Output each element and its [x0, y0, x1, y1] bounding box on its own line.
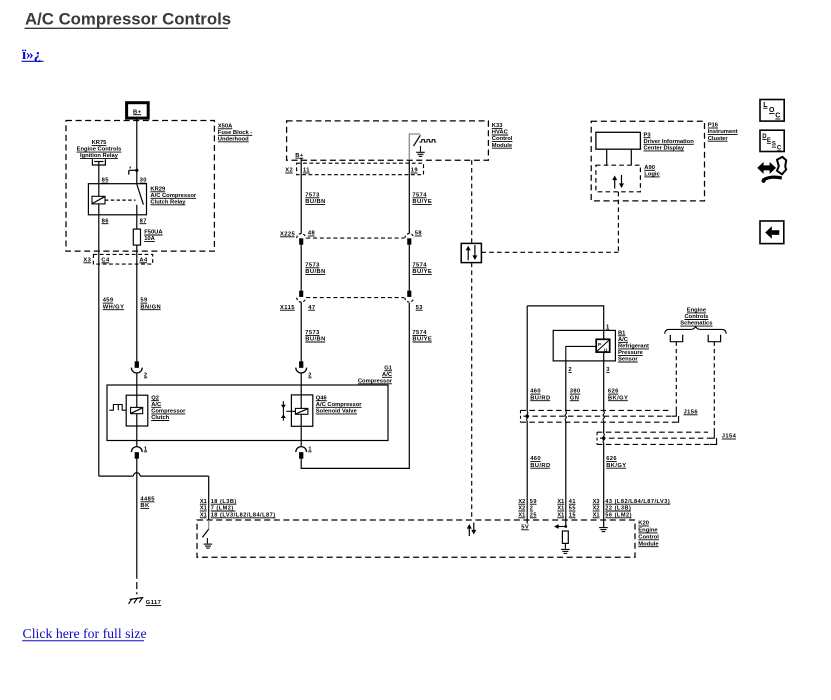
ECM serial arrows — [468, 528, 470, 536]
relay KR29 box — [88, 184, 146, 215]
svg-text:P: P — [598, 342, 601, 347]
ECM pull resistor — [562, 531, 568, 543]
serial data connector box (mid) — [461, 243, 481, 262]
wires display to logic — [606, 149, 608, 165]
relay KR75 terminal symbol — [92, 159, 105, 165]
P3 Driver Information Center Display box — [596, 132, 641, 149]
wire 5V reference loop — [527, 306, 604, 331]
clutch ground wire down — [136, 459, 138, 572]
solenoid valve symbol — [282, 401, 284, 421]
wire 380 GN down — [565, 361, 567, 412]
K33 internal PWM source symbol — [419, 140, 436, 142]
ECM internal switch to ground (A/C relay control) — [208, 520, 210, 529]
svg-text:A/C Compressor Controls: A/C Compressor Controls — [25, 9, 231, 28]
solenoid Q46 outer box — [291, 395, 312, 426]
A/C compressor G1 box — [107, 385, 388, 441]
relay KR29 coil-contact dashed link — [105, 199, 136, 201]
clutch mechanical symbol — [109, 405, 126, 411]
connector pin 1 of clutch — [131, 447, 142, 452]
wire through clutch Q2 — [136, 373, 138, 446]
wire fuse to A4 — [136, 245, 138, 361]
icon DESC box — [760, 130, 784, 151]
dashed lead to J156 — [675, 342, 677, 409]
solenoid Q46 coil — [295, 408, 308, 414]
K33 HVAC Control Module dashed outline — [287, 121, 489, 160]
chassis ground G117 — [130, 598, 144, 600]
wire through solenoid Q46 — [300, 373, 302, 446]
sensor internal signal line — [566, 346, 596, 361]
engine harness connector 1 — [670, 335, 682, 342]
clutch Q2 coil — [131, 407, 143, 413]
splice band J154 — [597, 431, 708, 433]
P16 Instrument Cluster dashed outline — [591, 121, 704, 201]
X50A Fuse Block - Underhood dashed outline — [66, 121, 214, 252]
svg-text:O: O — [769, 107, 775, 114]
solenoid return wire to X115 pin 53 — [301, 303, 409, 468]
ECM signal input arrow — [556, 526, 566, 528]
icon curved routing arrow — [758, 163, 775, 173]
wire 459 horizontal run to ECM — [99, 475, 134, 477]
svg-text:Click here for full size: Click here for full size — [23, 626, 147, 641]
junction stub on B+ wire — [129, 169, 137, 171]
power feed B+ box — [127, 103, 149, 118]
clutch Q2 outer box — [126, 395, 148, 426]
splice band J156 — [521, 409, 671, 411]
relay KR29 contact blade — [137, 184, 144, 204]
wire 460 BU/RD down — [526, 306, 528, 412]
connector pin 1 of solenoid valve — [296, 447, 307, 452]
B1 sensor box — [553, 330, 615, 361]
wire B+ to relay pin 30 — [136, 118, 138, 184]
brace — [665, 327, 727, 334]
serial data line to instrument cluster — [481, 251, 618, 253]
connector pin 2 of solenoid valve — [299, 361, 303, 367]
A90 serial arrows — [614, 180, 616, 189]
engine harness connector 2 — [708, 335, 720, 342]
A90 Logic dashed box — [596, 165, 641, 192]
icon back-arrow box — [760, 221, 784, 244]
wire B+ to pin 11 — [300, 158, 302, 234]
serial data line from K33 — [471, 160, 473, 243]
wire 626 BK/GY down — [603, 361, 605, 412]
wire coil pin 86 down — [98, 204, 100, 476]
K33 internal driver: pin 19 lead — [409, 134, 420, 160]
connector pin 2 of A/C compressor clutch — [135, 361, 139, 367]
wire KR75 to coil pin 85 — [98, 162, 100, 197]
relay KR29 coil — [92, 196, 105, 204]
pressure transducer P/U symbol — [603, 330, 605, 339]
icon LOC box — [760, 100, 784, 122]
svg-text:C: C — [775, 113, 780, 120]
K20 Engine Control Module dashed outline — [197, 520, 635, 557]
K33 internal switch blade — [414, 135, 421, 146]
dashed lead to J154 — [713, 342, 715, 431]
serial data line to ECM — [471, 263, 473, 520]
K33 internal ground — [420, 146, 422, 152]
fuse F50UA — [133, 229, 140, 245]
wire pin 87 to fuse — [136, 215, 138, 229]
ECM low reference ground — [599, 527, 608, 529]
